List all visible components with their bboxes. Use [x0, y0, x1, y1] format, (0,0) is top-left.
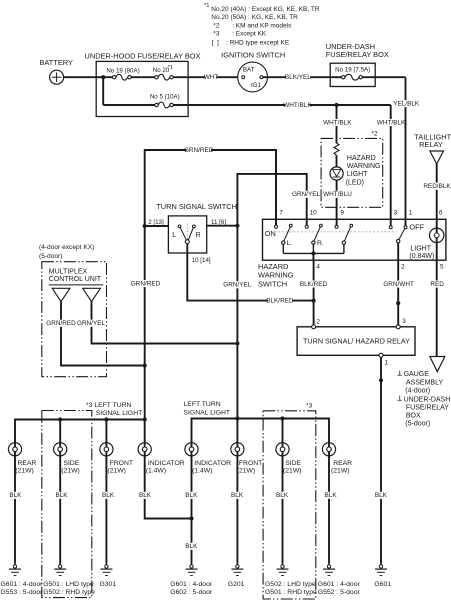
svg-text:2: 2	[401, 264, 405, 271]
svg-text:2 [13]: 2 [13]	[148, 219, 164, 226]
bulb right turn indicator light	[191, 443, 193, 456]
hazard switch pole OFF	[389, 226, 392, 229]
svg-text:BLK: BLK	[55, 492, 68, 499]
node splice relay ground wire	[379, 378, 383, 382]
svg-text:*3: *3	[306, 403, 313, 410]
svg-text:UNDER-HOOD FUSE/RELAY BOX: UNDER-HOOD FUSE/RELAY BOX	[85, 51, 201, 60]
svg-text:LIGHT: LIGHT	[347, 171, 368, 178]
wire multiplex GRN/YEL tap	[92, 302, 238, 344]
svg-text:MULTIPLEX: MULTIPLEX	[49, 268, 88, 275]
gauge assembly arrow	[430, 357, 445, 372]
svg-text:WARNING: WARNING	[258, 271, 294, 280]
wire BLK side left to ground	[59, 456, 61, 563]
svg-text:BLK: BLK	[102, 492, 115, 499]
svg-text:GRN/YEL: GRN/YEL	[77, 320, 106, 327]
svg-text:SWITCH: SWITCH	[258, 279, 287, 288]
svg-text:No.20 (40A) : Except KG, KE, K: No.20 (40A) : Except KG, KE, KB, TR	[211, 6, 320, 13]
right lamp bus GRN/YEL	[192, 419, 330, 443]
svg-text:BLK: BLK	[231, 492, 244, 499]
hazard switch pole L	[275, 225, 278, 228]
wire BLK/RED hazard pin 4 to relay pin 2	[313, 260, 315, 327]
bulb rear left turn signal light	[14, 443, 16, 456]
svg-text:TURN SIGNAL/ HAZARD RELAY: TURN SIGNAL/ HAZARD RELAY	[303, 336, 410, 345]
wire WHT/BLK fuse No5 run	[173, 104, 391, 106]
hazard switch OFF drop	[397, 243, 399, 260]
wire GRN/YEL horizontal to hazard pin 10	[237, 174, 306, 226]
node bus junction SIDE left	[58, 417, 62, 421]
svg-text:: KM and KP models: : KM and KP models	[232, 22, 292, 29]
hazard warning switch box	[263, 219, 446, 260]
node bus junction FRONT left	[104, 417, 108, 421]
svg-text:3: 3	[394, 210, 398, 217]
ground G601/G602	[191, 563, 193, 565]
svg-text:WHT/BLK: WHT/BLK	[377, 119, 406, 126]
svg-text:7: 7	[279, 210, 283, 217]
wire multiplex GRN/RED tap	[61, 302, 145, 366]
hazard warning light dash-dot box *2	[321, 138, 383, 207]
svg-text:GRN/YEL: GRN/YEL	[223, 282, 252, 289]
svg-text:REAR: REAR	[18, 460, 37, 467]
svg-text:BLK: BLK	[185, 492, 198, 499]
svg-text:(21W): (21W)	[15, 468, 34, 475]
svg-text:SIGNAL LIGHT: SIGNAL LIGHT	[184, 409, 231, 416]
svg-text:No 19 (7.5A): No 19 (7.5A)	[335, 67, 370, 74]
svg-text:6: 6	[439, 210, 443, 217]
hazard switch pole 3	[335, 225, 338, 228]
wire WHT/BLK down to hazard switch pin 3	[390, 105, 392, 226]
hazard switch mechanical link	[278, 231, 397, 233]
svg-text:LIGHT: LIGHT	[410, 245, 431, 252]
gauge assembly labels	[399, 371, 401, 376]
wire BLK front left to ground	[105, 456, 107, 563]
svg-text:G501 : RHD type: G501 : RHD type	[265, 589, 317, 596]
svg-text:G602 : 5-door: G602 : 5-door	[170, 589, 213, 596]
svg-text:BLK: BLK	[9, 492, 22, 499]
wire GRN/YEL main vertical	[236, 226, 238, 443]
wire relay pin 1 to ground	[380, 357, 382, 563]
relay pin 2 terminal	[312, 325, 316, 329]
bulb left turn indicator light	[144, 443, 146, 456]
ground G601/G552	[328, 563, 330, 565]
svg-text:BLK/YEL: BLK/YEL	[285, 74, 311, 81]
svg-text:FUSE/RELAY: FUSE/RELAY	[406, 405, 449, 412]
wire to fuse No5	[103, 104, 155, 106]
wire FRONT left drop	[105, 420, 107, 443]
multiplex input triangle GRN/RED	[52, 288, 70, 301]
svg-text:: RHD type except KE: : RHD type except KE	[226, 39, 290, 46]
turn signal switch contacts	[178, 225, 181, 228]
svg-text:9: 9	[340, 210, 344, 217]
wire RED hazard pin 5 to gauge assembly	[436, 260, 438, 356]
ground G502/G501	[282, 563, 284, 565]
svg-text:G301: G301	[100, 581, 117, 588]
node junction multiplex GRN/YEL	[235, 341, 239, 345]
bulb front left turn signal light	[105, 443, 107, 456]
bulb rear right turn signal light	[328, 443, 330, 456]
svg-text:11 [6]: 11 [6]	[211, 219, 226, 226]
svg-text:YEL/BLK: YEL/BLK	[393, 100, 420, 107]
ground G501/G502	[59, 563, 61, 565]
svg-text:BOX: BOX	[406, 413, 421, 420]
svg-text:*1: *1	[204, 3, 209, 9]
svg-text:G601 : 4-door: G601 : 4-door	[1, 581, 44, 588]
svg-text:RED: RED	[430, 281, 444, 288]
svg-text:(21W): (21W)	[237, 468, 256, 475]
wire SIDE right drop	[282, 419, 284, 443]
svg-text:TURN SIGNAL SWITCH: TURN SIGNAL SWITCH	[156, 202, 237, 211]
wire WHT/BLU LED to hazard pin 9	[336, 180, 338, 225]
wire GRN/WHT hazard pin 2 to relay pin 3	[397, 260, 399, 327]
wire RED/BLK taillight relay to hazard pin 6	[436, 164, 438, 219]
wire BLK right indicator to ground	[191, 456, 193, 563]
bulb front right turn signal light	[236, 443, 238, 456]
svg-text:L: L	[172, 232, 176, 239]
svg-text:(0.84W): (0.84W)	[409, 253, 434, 260]
svg-text:WHT: WHT	[204, 74, 219, 81]
wire GRN/RED main vertical	[144, 226, 146, 443]
node junction WHT/BLK at LED branch	[334, 103, 338, 107]
svg-text:10 [14]: 10 [14]	[192, 257, 211, 264]
svg-text:G601 : 4-door: G601 : 4-door	[318, 581, 361, 588]
svg-text:*1: *1	[168, 65, 173, 71]
hazard switch internal bus	[282, 244, 284, 253]
svg-text:UNDER-DASH: UNDER-DASH	[404, 396, 451, 403]
svg-text:FUSE/RELAY BOX: FUSE/RELAY BOX	[326, 50, 389, 59]
svg-text:L.: L.	[287, 240, 293, 247]
hazard switch pole R	[305, 225, 308, 228]
wire YEL/BLK to hazard switch pin 1	[405, 77, 407, 226]
svg-text:WARNING: WARNING	[347, 163, 381, 170]
svg-text:CONTROL UNIT: CONTROL UNIT	[49, 276, 102, 283]
relay pin 3 terminal	[396, 325, 400, 329]
svg-text:BLK: BLK	[276, 492, 289, 499]
svg-text:BLK: BLK	[375, 492, 388, 499]
node junction battery feed	[101, 75, 105, 79]
node junction GRN/YEL at TSS	[235, 224, 239, 228]
svg-text:G552 : 5-door: G552 : 5-door	[318, 589, 361, 596]
svg-text:: Except KK: : Except KK	[232, 31, 267, 38]
svg-text:G502 : LHD type: G502 : LHD type	[265, 581, 316, 588]
wire BLK left indicator join	[145, 456, 192, 519]
node splice GRN/WHT	[396, 301, 400, 305]
svg-text:4: 4	[316, 264, 320, 271]
svg-text:No 5 (10A): No 5 (10A)	[150, 94, 180, 101]
svg-text:FRONT: FRONT	[110, 460, 133, 467]
svg-text:G601 : 4-door: G601 : 4-door	[170, 581, 213, 588]
relay pin 1 terminal	[379, 353, 383, 357]
svg-text:(1.4W): (1.4W)	[146, 468, 166, 475]
wire TSS pin 11 [6]	[207, 225, 238, 227]
hazard switch illumination bulb LIGHT (0.84W)	[436, 219, 438, 260]
svg-text:SIGNAL LIGHT: SIGNAL LIGHT	[96, 410, 143, 417]
svg-text:No 19 (80A): No 19 (80A)	[106, 67, 139, 74]
wire resistor to LED	[336, 155, 338, 167]
svg-text:HAZARD: HAZARD	[347, 155, 376, 162]
node junction GRN/RED at TSS	[143, 224, 147, 228]
node junction indicator grounds	[189, 516, 193, 520]
wire WHT/BLK to LED	[336, 105, 338, 143]
wire BLK side right to ground	[282, 456, 284, 563]
svg-text:IG1: IG1	[251, 82, 262, 89]
svg-text:G502 : RHD type: G502 : RHD type	[43, 589, 95, 596]
node bus junction GRN/RED main	[143, 417, 147, 421]
svg-text:ON: ON	[265, 229, 276, 238]
svg-text:R: R	[196, 232, 201, 239]
wire down to fuse No5	[102, 77, 104, 105]
svg-text:(4-door): (4-door)	[405, 387, 430, 394]
svg-text:RED/BLK: RED/BLK	[423, 183, 451, 190]
svg-text:BLK: BLK	[139, 492, 152, 499]
svg-text:(5-door): (5-door)	[39, 253, 62, 260]
ground G601/G553	[14, 563, 16, 565]
svg-text:WHT/BLU: WHT/BLU	[323, 191, 352, 198]
svg-text:IGNITION SWITCH: IGNITION SWITCH	[221, 51, 285, 60]
svg-text:G553 : 5-door: G553 : 5-door	[1, 589, 44, 596]
svg-text:ASSEMBLY: ASSEMBLY	[406, 379, 444, 386]
wire BLK/YEL ignition to under-dash box	[263, 76, 330, 78]
svg-text:[ ]: [ ]	[212, 39, 219, 46]
turn signal/hazard relay box	[297, 327, 415, 356]
wire WHT fuse No20 to ignition switch	[173, 76, 238, 78]
svg-text:WHT/BLK: WHT/BLK	[283, 102, 312, 109]
svg-text:1: 1	[409, 210, 413, 217]
resistor in LED string	[334, 143, 339, 155]
svg-text:BLK: BLK	[325, 492, 338, 499]
svg-text:GRN/RED: GRN/RED	[46, 320, 76, 327]
svg-text:GRN/RED: GRN/RED	[184, 147, 214, 154]
svg-text:(21W): (21W)	[283, 468, 302, 475]
svg-text:(1.4W): (1.4W)	[192, 468, 212, 475]
svg-text:(5-door): (5-door)	[405, 421, 430, 428]
wire GRN/RED horizontal to hazard pin 7	[145, 150, 276, 226]
svg-text:BLK/RED: BLK/RED	[300, 281, 328, 288]
svg-text:No.20 (50A) : KG, KE, KB, TR: No.20 (50A) : KG, KE, KB, TR	[211, 14, 298, 21]
svg-text:5: 5	[440, 264, 444, 271]
left *3 dash-dot box	[42, 411, 92, 598]
svg-text:(4-door except KX): (4-door except KX)	[39, 244, 94, 251]
svg-text:1: 1	[384, 360, 388, 367]
svg-text:*2: *2	[213, 22, 220, 29]
wire BLK rear right to ground	[328, 456, 330, 563]
svg-text:G601: G601	[374, 581, 391, 588]
svg-text:BAT: BAT	[243, 67, 255, 74]
svg-text:*3: *3	[213, 31, 220, 38]
svg-text:REAR: REAR	[333, 460, 352, 467]
svg-text:INDICATOR: INDICATOR	[148, 460, 185, 467]
wire TSS pin 10 [14] common BLK/RED	[187, 244, 313, 301]
svg-text:INDICATOR: INDICATOR	[194, 460, 231, 467]
hazard warning LED	[330, 167, 343, 180]
svg-text:3: 3	[402, 318, 406, 325]
svg-text:(21W): (21W)	[331, 468, 350, 475]
svg-text:(21W): (21W)	[107, 468, 126, 475]
svg-text:SIDE: SIDE	[285, 460, 301, 467]
svg-text:BATTERY: BATTERY	[40, 58, 73, 67]
ground G601 relay	[380, 563, 382, 565]
bulb side right turn signal light	[282, 443, 284, 456]
svg-text:GRN/YEL: GRN/YEL	[292, 191, 321, 198]
node junction BLK/RED	[312, 299, 316, 303]
node bus junction SIDE right	[280, 416, 284, 420]
svg-text:G201: G201	[228, 581, 245, 588]
svg-text:GRN/WHT: GRN/WHT	[383, 281, 414, 288]
svg-text:GRN/RED: GRN/RED	[131, 280, 161, 287]
multiplex input triangle GRN/YEL	[83, 288, 101, 301]
ground G301	[105, 563, 107, 565]
node junction multiplex GRN/RED	[143, 363, 147, 367]
svg-text:WHT/BLK: WHT/BLK	[323, 119, 352, 126]
svg-text:BLK: BLK	[185, 543, 198, 550]
bulb side left turn signal light	[59, 443, 61, 456]
svg-text:*3 LEFT TURN: *3 LEFT TURN	[86, 402, 132, 409]
wire SIDE left drop	[59, 420, 61, 443]
wire BLK front right to ground	[236, 456, 238, 563]
left lamp bus GRN/RED	[15, 420, 145, 443]
svg-text:*2: *2	[371, 130, 378, 137]
wire battery to fuse No19	[64, 76, 113, 78]
svg-text:OFF: OFF	[409, 222, 424, 231]
svg-text:(LED): (LED)	[346, 180, 364, 187]
svg-text:SIDE: SIDE	[64, 460, 80, 467]
svg-text:(21W): (21W)	[61, 468, 80, 475]
svg-text:2: 2	[316, 319, 320, 326]
wire hazard pin 7 drop	[275, 150, 277, 225]
wire BLK rear left to ground	[14, 456, 16, 563]
wire TSS pin 2 [13]	[145, 225, 169, 227]
svg-text:HAZARD: HAZARD	[258, 262, 288, 271]
svg-text:10: 10	[310, 210, 318, 217]
svg-text:BLK/RED: BLK/RED	[266, 297, 294, 304]
svg-text:FRONT: FRONT	[239, 460, 262, 467]
node bus junction GRN/YEL main	[235, 416, 239, 420]
right *3 dash-dot box	[263, 411, 316, 599]
svg-text:G501 : LHD type: G501 : LHD type	[43, 581, 94, 588]
ground G201	[236, 563, 238, 565]
wire fuse No19 to fuse No20	[131, 76, 155, 78]
svg-text:LEFT TURN: LEFT TURN	[184, 401, 221, 408]
svg-text:GAUGE: GAUGE	[404, 371, 430, 378]
svg-text:RELAY: RELAY	[419, 140, 443, 149]
svg-text:R.: R.	[317, 240, 324, 247]
